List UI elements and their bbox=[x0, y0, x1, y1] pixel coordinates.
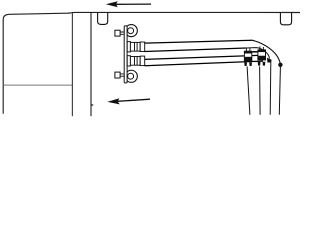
mounting tab left bbox=[98, 12, 108, 24]
bottom clamp bolt bbox=[115, 72, 120, 78]
housing left+top outline bbox=[3, 13, 67, 114]
bottom clamp ring inner bbox=[128, 73, 134, 79]
union block B riser bbox=[260, 46, 264, 49]
union nipple A-B bbox=[252, 51, 257, 53]
drop pipe 2 bbox=[259, 66, 262, 114]
panel tick bbox=[91, 104, 93, 107]
elbow outer curve bbox=[253, 40, 281, 64]
pipe1 union at bar bbox=[127, 42, 145, 52]
middle arrow bbox=[107, 98, 150, 104]
machine top line bbox=[67, 11, 300, 14]
union block A riser bbox=[246, 48, 250, 51]
housing shelf line bbox=[3, 84, 72, 86]
drop pipe 3 bbox=[269, 62, 272, 114]
union block B bbox=[257, 49, 266, 65]
top clamp ring outer bbox=[125, 25, 137, 37]
drop pipe 4 bbox=[279, 67, 280, 115]
junction dot bbox=[278, 63, 282, 67]
bottom clamp ring outer bbox=[125, 70, 137, 82]
panel line bbox=[90, 12, 92, 116]
top arrow bbox=[106, 1, 151, 7]
union block A bbox=[244, 51, 252, 66]
elbow foot bbox=[267, 58, 272, 63]
pipe2 union at bar bbox=[127, 56, 145, 66]
bracket bar bbox=[125, 26, 127, 84]
mounting tab right bbox=[280, 13, 291, 25]
pipe 2 bbox=[145, 55, 258, 59]
elbow inner curve bbox=[246, 48, 269, 59]
top clamp ring inner bbox=[128, 28, 134, 34]
top clamp bolt bbox=[115, 30, 120, 36]
housing right edge bbox=[71, 13, 73, 116]
drop pipe 1 bbox=[247, 66, 250, 114]
pipe 1 bbox=[145, 40, 253, 43]
